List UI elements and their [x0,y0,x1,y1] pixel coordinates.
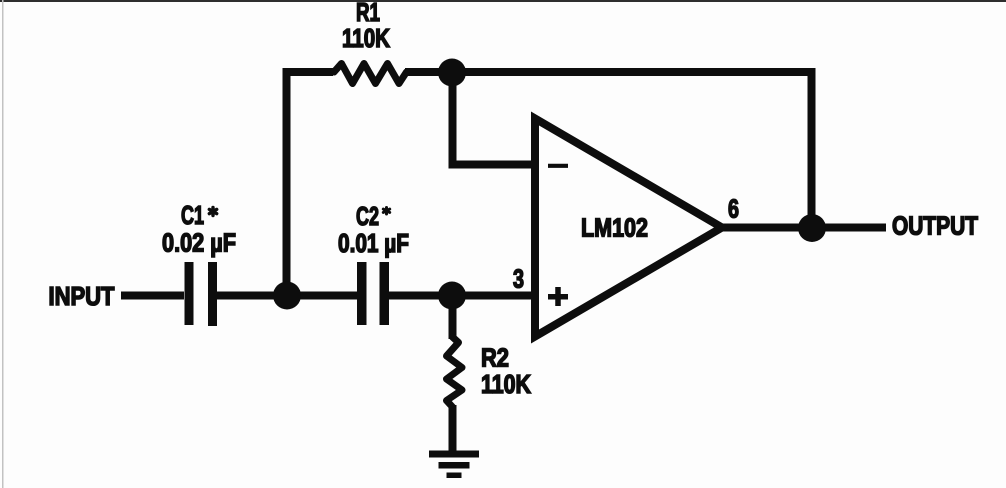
svg-text:3: 3 [513,264,524,294]
svg-text:INPUT: INPUT [49,281,115,311]
svg-text:110K: 110K [342,23,390,53]
svg-text:C1: C1 [181,200,204,230]
svg-text:R2: R2 [481,343,509,373]
svg-text:6: 6 [728,194,739,224]
svg-text:110K: 110K [481,369,531,399]
svg-text:C2: C2 [356,201,379,231]
svg-text:0.01 µF: 0.01 µF [338,228,409,258]
svg-text:0.02 µF: 0.02 µF [162,228,236,258]
svg-text:OUTPUT: OUTPUT [892,211,978,241]
svg-text:LM102: LM102 [581,213,648,243]
